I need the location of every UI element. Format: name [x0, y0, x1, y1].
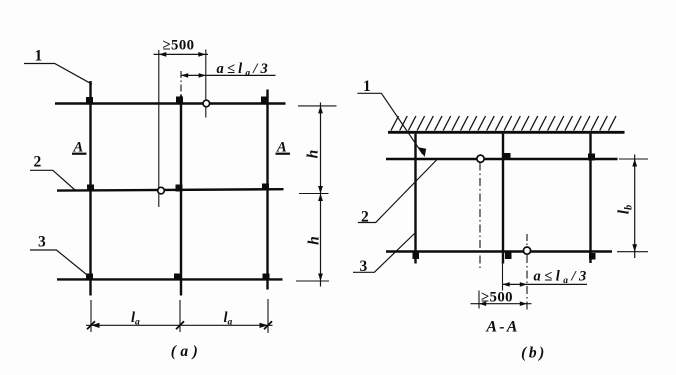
svg-text:1: 1 [35, 48, 43, 65]
dimension a<=la/3 (a) line [181, 74, 276, 76]
leader 1 (b) [357, 93, 422, 154]
bottom row (b) [386, 250, 612, 252]
arrow right of a-dim (a) [199, 73, 206, 78]
coupler blob bottom row post B2 [505, 253, 512, 260]
post P1 [89, 81, 91, 296]
svg-text:≥500: ≥500 [163, 38, 195, 54]
svg-text:A-A: A-A [485, 319, 519, 336]
svg-text:(a): (a) [171, 343, 203, 360]
ledger row 1 [55, 102, 286, 104]
leader 1 (a) [24, 64, 92, 85]
>=500 dim extension left (b) [478, 291, 480, 309]
coupler blob bottom row post B1 [413, 253, 420, 260]
h dimension tick bottom [296, 280, 329, 282]
leader 1 arrowhead [418, 147, 426, 157]
post B3 [589, 134, 591, 263]
chain line above post P2 [180, 71, 182, 96]
h dimension tick middle [299, 193, 329, 195]
arrow right >=500 (b) [520, 301, 527, 306]
ledger row 3 [57, 278, 283, 280]
chain stub above joint D2 [526, 234, 528, 248]
>=500 dimension line (b) [471, 303, 532, 305]
coupler blob bottom row post B3 [589, 253, 596, 260]
arrow left of a-dim (a) [181, 73, 188, 78]
svg-text:3: 3 [38, 234, 46, 251]
slash arrow left [87, 321, 95, 329]
coupler blob top row post B2 [504, 153, 511, 160]
leader 2 (b) [358, 160, 437, 223]
coupler blobs row3 [86, 274, 93, 281]
h dimension tick top [298, 105, 337, 107]
svg-text:≥500: ≥500 [481, 290, 513, 306]
a-dim line (b) [503, 283, 588, 285]
chain below joint D2 [526, 255, 528, 310]
dimension >=500 (a) line [154, 53, 209, 55]
svg-text:h: h [306, 236, 323, 245]
ceiling hatch strokes [391, 116, 616, 131]
leader 3 (a) [30, 250, 89, 277]
extension line above joint circle C1 [205, 50, 207, 101]
arrow right of >=500 (a) [198, 52, 206, 57]
ledger A-A top row [386, 158, 618, 160]
ledger row 2 [57, 189, 284, 190]
post B1 [414, 134, 416, 264]
h dim arrows middle [318, 186, 323, 194]
arrow left a-dim (b) [503, 282, 510, 287]
bottom dim extension left [90, 300, 92, 332]
lb dim tick bottom [617, 251, 648, 253]
joint circle C1 on row1 [203, 100, 210, 107]
lb arrow up [632, 159, 637, 167]
bottom dim extension right [267, 299, 269, 333]
arrow left of >=500 (a) [159, 52, 167, 57]
stub below joint circle C1 [205, 107, 207, 118]
svg-text:a≤la/3: a≤la/3 [534, 269, 590, 287]
extension below post B2 [502, 257, 504, 291]
post P3 [266, 90, 268, 290]
lb dim vertical [634, 155, 636, 259]
joint circle D1 on ledger A [477, 155, 484, 162]
slash arrow right [264, 321, 272, 329]
joint circle D2 on bottom row [523, 247, 530, 254]
ceiling slab line [388, 131, 625, 134]
arrow right a-dim (b) [520, 282, 527, 287]
coupler blobs row1 [86, 97, 93, 104]
post P2 [180, 96, 182, 296]
joint circle C2 on row2 [158, 187, 165, 194]
leader 3 (b) [353, 234, 415, 273]
svg-text:1: 1 [363, 78, 371, 95]
arrow left >=500 (b) [479, 301, 486, 306]
h dim arrow down bottom [318, 274, 323, 282]
h dim arrow up top [318, 106, 323, 114]
bottom dim extension middle [179, 300, 181, 332]
svg-text:2: 2 [34, 154, 42, 171]
extension line left of >=500 [158, 50, 160, 207]
coupler blobs row2 [87, 185, 94, 192]
svg-text:a≤la/3: a≤la/3 [217, 61, 271, 79]
slash arrow middle [176, 321, 184, 329]
lb dim tick top [619, 158, 648, 160]
svg-text:(b): (b) [521, 345, 547, 362]
lb arrow down [632, 244, 637, 252]
chain line below joint D1 [479, 163, 481, 272]
post B2 [502, 134, 504, 264]
coupler blob top row post B3 [588, 154, 595, 161]
h dimension vertical line [320, 103, 322, 287]
bottom dimension line la+la [86, 324, 273, 326]
svg-text:h: h [305, 150, 322, 159]
leader 2 (a) [30, 170, 75, 190]
